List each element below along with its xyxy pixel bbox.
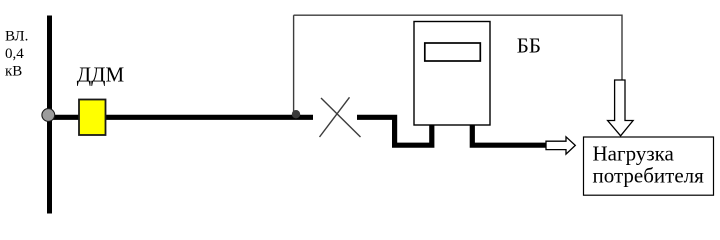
arrow: block arrow to load (horizontal) [546, 137, 575, 154]
svg-text:0,4: 0,4 [5, 46, 24, 62]
wire: BB output terminal to load (thick) [472, 125, 546, 145]
arrow: block arrow from bypass down to load [608, 80, 634, 136]
component ДДМ (sensor on line) [79, 100, 106, 136]
svg-text:ББ: ББ [517, 33, 541, 57]
switch: open point X [320, 97, 361, 137]
label: Нагрузка потребителя [593, 142, 705, 188]
svg-text:кВ: кВ [5, 64, 22, 80]
wire: bypass top run and drop [294, 15, 622, 80]
wire: main feeder tap (horizontal thick) [48, 115, 313, 120]
node: connection to feeder bus [42, 109, 55, 122]
label: ВЛ. 0,4 кВ [5, 29, 28, 80]
node: tap to bypass riser [292, 110, 300, 118]
label ДДМ [77, 63, 125, 87]
svg-text:ВЛ.: ВЛ. [5, 29, 28, 45]
wire: line into BB input terminal (stepped thick) [357, 117, 432, 145]
display window of ББ [425, 43, 481, 61]
bus: 0.4 kV feeder line (vertical) [47, 16, 52, 214]
svg-text:потребителя: потребителя [593, 164, 705, 188]
wire: riser from tap node up [293, 15, 295, 113]
label ББ [517, 33, 541, 57]
svg-text:ДДМ: ДДМ [77, 63, 125, 87]
load box [584, 137, 714, 195]
device ББ box [414, 22, 490, 126]
svg-text:Нагрузка: Нагрузка [593, 142, 675, 166]
